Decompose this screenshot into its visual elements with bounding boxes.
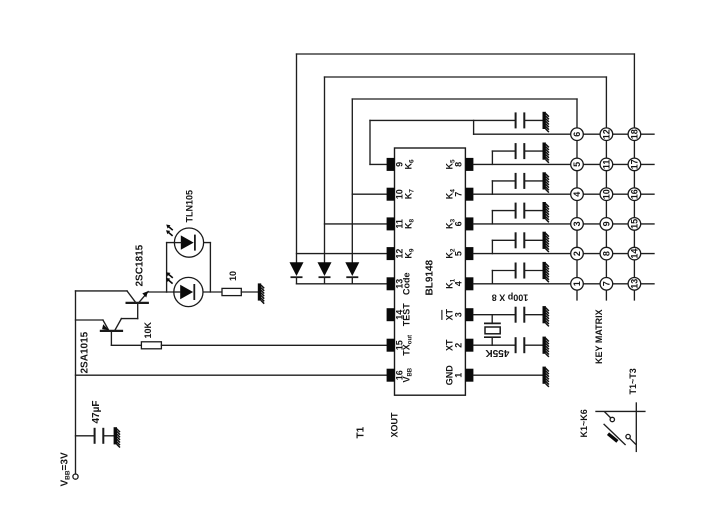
svg-text:2: 2 [572,251,582,256]
pin number 6 [453,221,463,226]
capacitor C7 100p on XTbar [516,307,525,323]
wire LED1 row [167,242,211,244]
key node 2 [571,247,584,260]
pin name VBB [402,367,414,382]
ground at pin 1 [543,367,549,387]
pin name K7 [404,189,416,200]
diode D1 code select [290,262,304,284]
label 10 [228,271,238,281]
label BL9148 [425,259,436,295]
capacitor C8 100p on XT [516,337,525,353]
label 2SC1815 [135,244,146,286]
svg-text:5: 5 [453,251,463,256]
wire collector line of 2SC1815 to rail [76,290,128,292]
svg-text:47µF: 47µF [91,401,102,424]
svg-text:3: 3 [572,221,582,226]
key node 10 [600,188,613,201]
wire LED2 row [167,291,222,293]
resistor 10 [222,288,241,295]
svg-text:10K: 10K [143,321,153,338]
key node 16 [628,188,641,201]
svg-text:XOUT: XOUT [390,412,400,438]
key node 8 [600,247,613,260]
svg-text:KEY MATRIX: KEY MATRIX [594,309,604,364]
pin name TEST [402,303,412,327]
ground at C8 [543,337,549,357]
wire matrix row 2 from pin 5 [473,253,654,255]
capacitor 47uF branch wire [76,435,95,437]
svg-text:3: 3 [453,312,463,317]
svg-text:4: 4 [453,281,463,286]
wire matrix column 2 [605,77,607,300]
key node 6 [571,128,584,141]
svg-text:1: 1 [572,281,582,286]
svg-text:8: 8 [602,251,612,256]
svg-text:2SA1015: 2SA1015 [80,331,91,373]
wire base of 2SA1015 to 10K [111,344,141,346]
wire C7 to ground [524,314,542,316]
svg-text:100p X 8: 100p X 8 [492,293,529,303]
key node 11 [600,158,613,171]
label TLN105 [185,190,195,223]
pin name XT bar [442,308,455,320]
svg-text:18: 18 [630,129,640,139]
key node 18 [628,128,641,141]
ground at C4 [543,172,549,192]
wire C6 to ground [524,119,542,121]
wire K6 jog down to matrix row 6 [473,120,475,134]
node VBB supply terminal [73,474,78,479]
svg-text:15: 15 [630,219,640,229]
key node 5 [571,158,584,171]
wire pin 11 to T2 net [325,223,388,225]
key node 17 [628,158,641,171]
svg-text:10: 10 [602,189,612,199]
label 10K [143,321,153,338]
pin name K4 [445,189,457,200]
svg-text:VBB=3V: VBB=3V [60,452,72,486]
wire C4 to ground [524,180,542,182]
IR LED D4 TLN105 top [174,228,203,257]
wire pin 3 XTbar line [473,314,515,316]
label 100p X 8 [492,293,529,303]
wire K6 vertical [369,120,371,164]
pin number 16 [395,370,405,380]
key node 14 [628,247,641,260]
svg-text:T1~T3: T1~T3 [628,368,638,394]
pin number 11 [395,219,405,229]
wire T2 vertical [324,77,326,262]
pin name TXout [402,335,414,356]
pin 16 [387,369,395,382]
key node 3 [571,218,584,231]
pin name K8 [404,218,416,229]
key node 15 [628,218,641,231]
capacitor 47uF [95,428,104,444]
svg-text:BL9148: BL9148 [425,259,436,295]
pin name K9 [404,248,416,259]
svg-text:4: 4 [572,192,582,197]
label 2SA1015 [80,331,91,373]
wire pin 12 to T3 net [297,253,388,255]
pin number 8 [453,162,463,167]
pin number 9 [395,162,405,167]
label T1 [356,426,367,438]
key node 9 [600,218,613,231]
wire C5 to ground [524,150,542,152]
resonator 455K [484,315,501,346]
pin number 1 [453,373,463,378]
wire 10 ohm to ground [241,291,257,293]
wire matrix row 3 from pin 6 [473,223,654,225]
svg-text:TLN105: TLN105 [185,190,195,223]
pin name K1 [445,278,457,289]
pin name K6 [404,159,416,170]
wire matrix row 1 from pin 4 [473,283,654,285]
pin 14 [387,308,395,321]
pin number 3 [453,312,463,317]
label XOUT [390,412,400,438]
ground at C5 [543,143,549,163]
svg-text:455K: 455K [485,347,510,358]
key node 13 [628,278,641,291]
svg-text:6: 6 [572,132,582,137]
svg-text:1: 1 [453,373,463,378]
key nodes [571,128,641,290]
pin 13 [387,277,395,290]
pin name K2 [445,248,457,259]
label T1~T3 [628,368,638,394]
wire 2SC1815 emitter to LED block [148,291,166,293]
resistor 10K [141,342,161,349]
pin 10 [387,188,395,201]
pin name K5 [445,159,457,170]
capacitor C3 100p branch on K3 line [492,211,515,224]
light arrows LED1 [166,225,173,236]
svg-text:7: 7 [602,281,612,286]
wire VBB rail to pin 16 [76,374,388,376]
label 455K [485,347,510,358]
svg-text:2: 2 [453,343,463,348]
key node 7 [600,278,613,291]
svg-text:TEST: TEST [402,303,412,327]
svg-text:7: 7 [453,192,463,197]
ground at C2 [543,232,549,252]
pin name GND [445,365,455,386]
wire C2 to ground [524,239,542,241]
wire matrix column 3 [633,54,635,300]
svg-text:6: 6 [453,221,463,226]
wire pin 9 K6 stub [370,163,387,165]
svg-text:13: 13 [630,279,640,289]
transistor Q2 2SA1015 [101,319,138,346]
wire T3 vertical [296,54,298,262]
wire matrix row 6 [474,133,654,135]
pin name K3 [445,218,457,229]
wire route T3 to matrix column 3 [297,53,635,55]
pin number 7 [453,192,463,197]
pin 1 [465,369,473,382]
wire matrix column 1 [576,99,578,300]
pin 11 [387,217,395,230]
ground at C6 [543,112,549,132]
pin name XT [445,339,455,351]
capacitor C6 100p on K6 line [516,112,525,128]
wire code line to pin 13 [297,283,388,285]
pin name Code [402,273,412,296]
wire 10K to pin 15 TXout [161,344,387,346]
diode D2 code select [318,262,332,284]
ground at 47uF [114,427,120,447]
IC U1 BL9148 body [395,148,466,395]
key node 4 [571,188,584,201]
legend key switch symbol [596,403,645,451]
wire route T2 to matrix column 2 [325,76,607,78]
pin number 12 [395,249,405,259]
pin 6 [465,217,473,230]
svg-text:17: 17 [630,159,640,169]
svg-text:10: 10 [228,271,238,281]
pin number 13 [395,279,405,289]
wire LED block left node [166,243,168,292]
label KEY MATRIX [594,309,604,364]
diode D3 code select [345,262,359,284]
pin 3 [465,308,473,321]
svg-text:9: 9 [602,221,612,226]
ground at C7 [543,306,549,326]
transistor Q1 2SC1815 [127,291,149,319]
svg-text:11: 11 [602,160,612,170]
light arrows LED2 [166,272,173,283]
wire pin 2 XT line [473,344,515,346]
pin number 4 [453,281,463,286]
capacitor C5 100p branch on K5 line [492,151,515,164]
wire 47uF to ground [103,435,113,437]
svg-text:K1~K6: K1~K6 [579,409,589,437]
ground at 10 ohm resistor [258,283,264,303]
wire matrix row 5 from pin 8 [473,163,654,165]
pin 8 [465,158,473,171]
svg-text:14: 14 [630,249,640,259]
svg-text:2SC1815: 2SC1815 [135,244,146,286]
svg-text:Code: Code [402,273,412,296]
key node 1 [571,278,584,291]
label 47uF [91,401,102,424]
wire C3 to ground [524,210,542,212]
IR LED D5 TLN105 bottom [174,277,203,306]
pin 2 [465,339,473,352]
svg-text:5: 5 [572,162,582,167]
pin number 15 [395,340,405,350]
wire VBB vertical rail [75,291,77,474]
wire K6 horizontal to capacitor [370,119,516,121]
pin number 2 [453,343,463,348]
wire C1 to ground [524,270,542,272]
wire route T1 to matrix column 1 [352,98,577,100]
pin number 5 [453,251,463,256]
wire LED block right node [209,243,211,292]
pin number 14 [395,310,405,320]
ground at C3 [543,202,549,222]
svg-text:12: 12 [602,129,612,139]
svg-text:8: 8 [453,162,463,167]
wire T1 vertical [351,99,353,262]
capacitor C2 100p branch on K2 line [492,240,515,253]
label K1~K6 [579,409,589,437]
pin number 10 [395,189,405,199]
svg-text:16: 16 [630,189,640,199]
pin 15 [387,339,395,352]
pin 12 [387,247,395,260]
pin 5 [465,247,473,260]
wire matrix row 4 from pin 7 [473,193,654,195]
wire C8 to ground [524,344,542,346]
pin 4 [465,277,473,290]
capacitor C4 100p branch on K4 line [492,181,515,194]
pin 7 [465,188,473,201]
key node 12 [600,128,613,141]
label VBB=3V [60,452,72,486]
wire pin 1 GND line [473,374,542,376]
wire pin 10 to T1 net [352,193,387,195]
pin 9 [387,158,395,171]
svg-text:T1: T1 [356,426,367,438]
wire 2SA1015 emitter to rail [76,319,103,321]
ground at C1 [543,262,549,282]
capacitor C1 100p branch on K1 line [492,271,515,284]
